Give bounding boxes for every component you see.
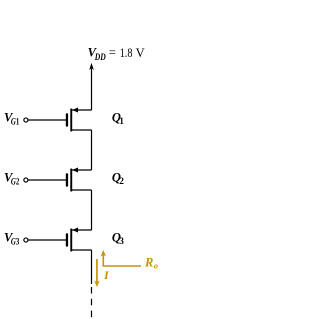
source terminal Q3 (arrow) bbox=[72, 229, 92, 231]
svg-text:Q1: Q1 bbox=[112, 110, 125, 126]
svg-text:VG3: VG3 bbox=[4, 231, 20, 247]
gate terminal circle VG3 bbox=[24, 238, 28, 242]
gate wire Q1 bbox=[28, 119, 66, 121]
drain terminal Q3 bbox=[72, 249, 92, 251]
gate bar Q3 bbox=[66, 233, 68, 246]
transistor Q3 (PMOS) bbox=[66, 228, 92, 252]
Ro arrow (elbow pointing up at drain node) bbox=[101, 250, 107, 257]
wire Q1 drain to Q2 source bbox=[91, 130, 93, 170]
gate bar Q1 bbox=[66, 113, 68, 126]
wire Q3 drain down (solid) bbox=[91, 250, 93, 284]
current I arrow (down) bbox=[96, 259, 98, 283]
gate wire Q3 bbox=[28, 239, 66, 241]
source terminal Q2 (arrow) bbox=[72, 169, 92, 171]
svg-text:Q3: Q3 bbox=[112, 230, 125, 246]
wire VDD to Q1 source bbox=[91, 69, 93, 111]
channel Q2 bbox=[70, 169, 72, 192]
transistor Q1 (PMOS) bbox=[66, 108, 92, 132]
svg-text:VDD=1.8V: VDD=1.8V bbox=[88, 46, 145, 62]
gate wire Q2 bbox=[28, 179, 66, 181]
svg-text:Q2: Q2 bbox=[112, 170, 125, 186]
gate bar Q2 bbox=[66, 173, 68, 186]
svg-text:Ro: Ro bbox=[144, 255, 158, 270]
channel Q3 bbox=[70, 229, 72, 252]
VDD arrow bbox=[89, 63, 94, 70]
svg-text:VG2: VG2 bbox=[4, 171, 20, 187]
source terminal Q1 (arrow) bbox=[72, 109, 92, 111]
wire Q2 drain to Q3 source bbox=[91, 190, 93, 230]
wire continuation (dashed) bbox=[91, 287, 93, 319]
svg-text:VG1: VG1 bbox=[4, 111, 20, 127]
drain terminal Q2 bbox=[72, 189, 92, 191]
gate terminal circle VG1 bbox=[24, 118, 28, 122]
svg-text:I: I bbox=[103, 268, 110, 282]
transistor Q2 (PMOS) bbox=[66, 168, 92, 192]
channel Q1 bbox=[70, 109, 72, 132]
drain terminal Q1 bbox=[72, 129, 92, 131]
gate terminal circle VG2 bbox=[24, 178, 28, 182]
